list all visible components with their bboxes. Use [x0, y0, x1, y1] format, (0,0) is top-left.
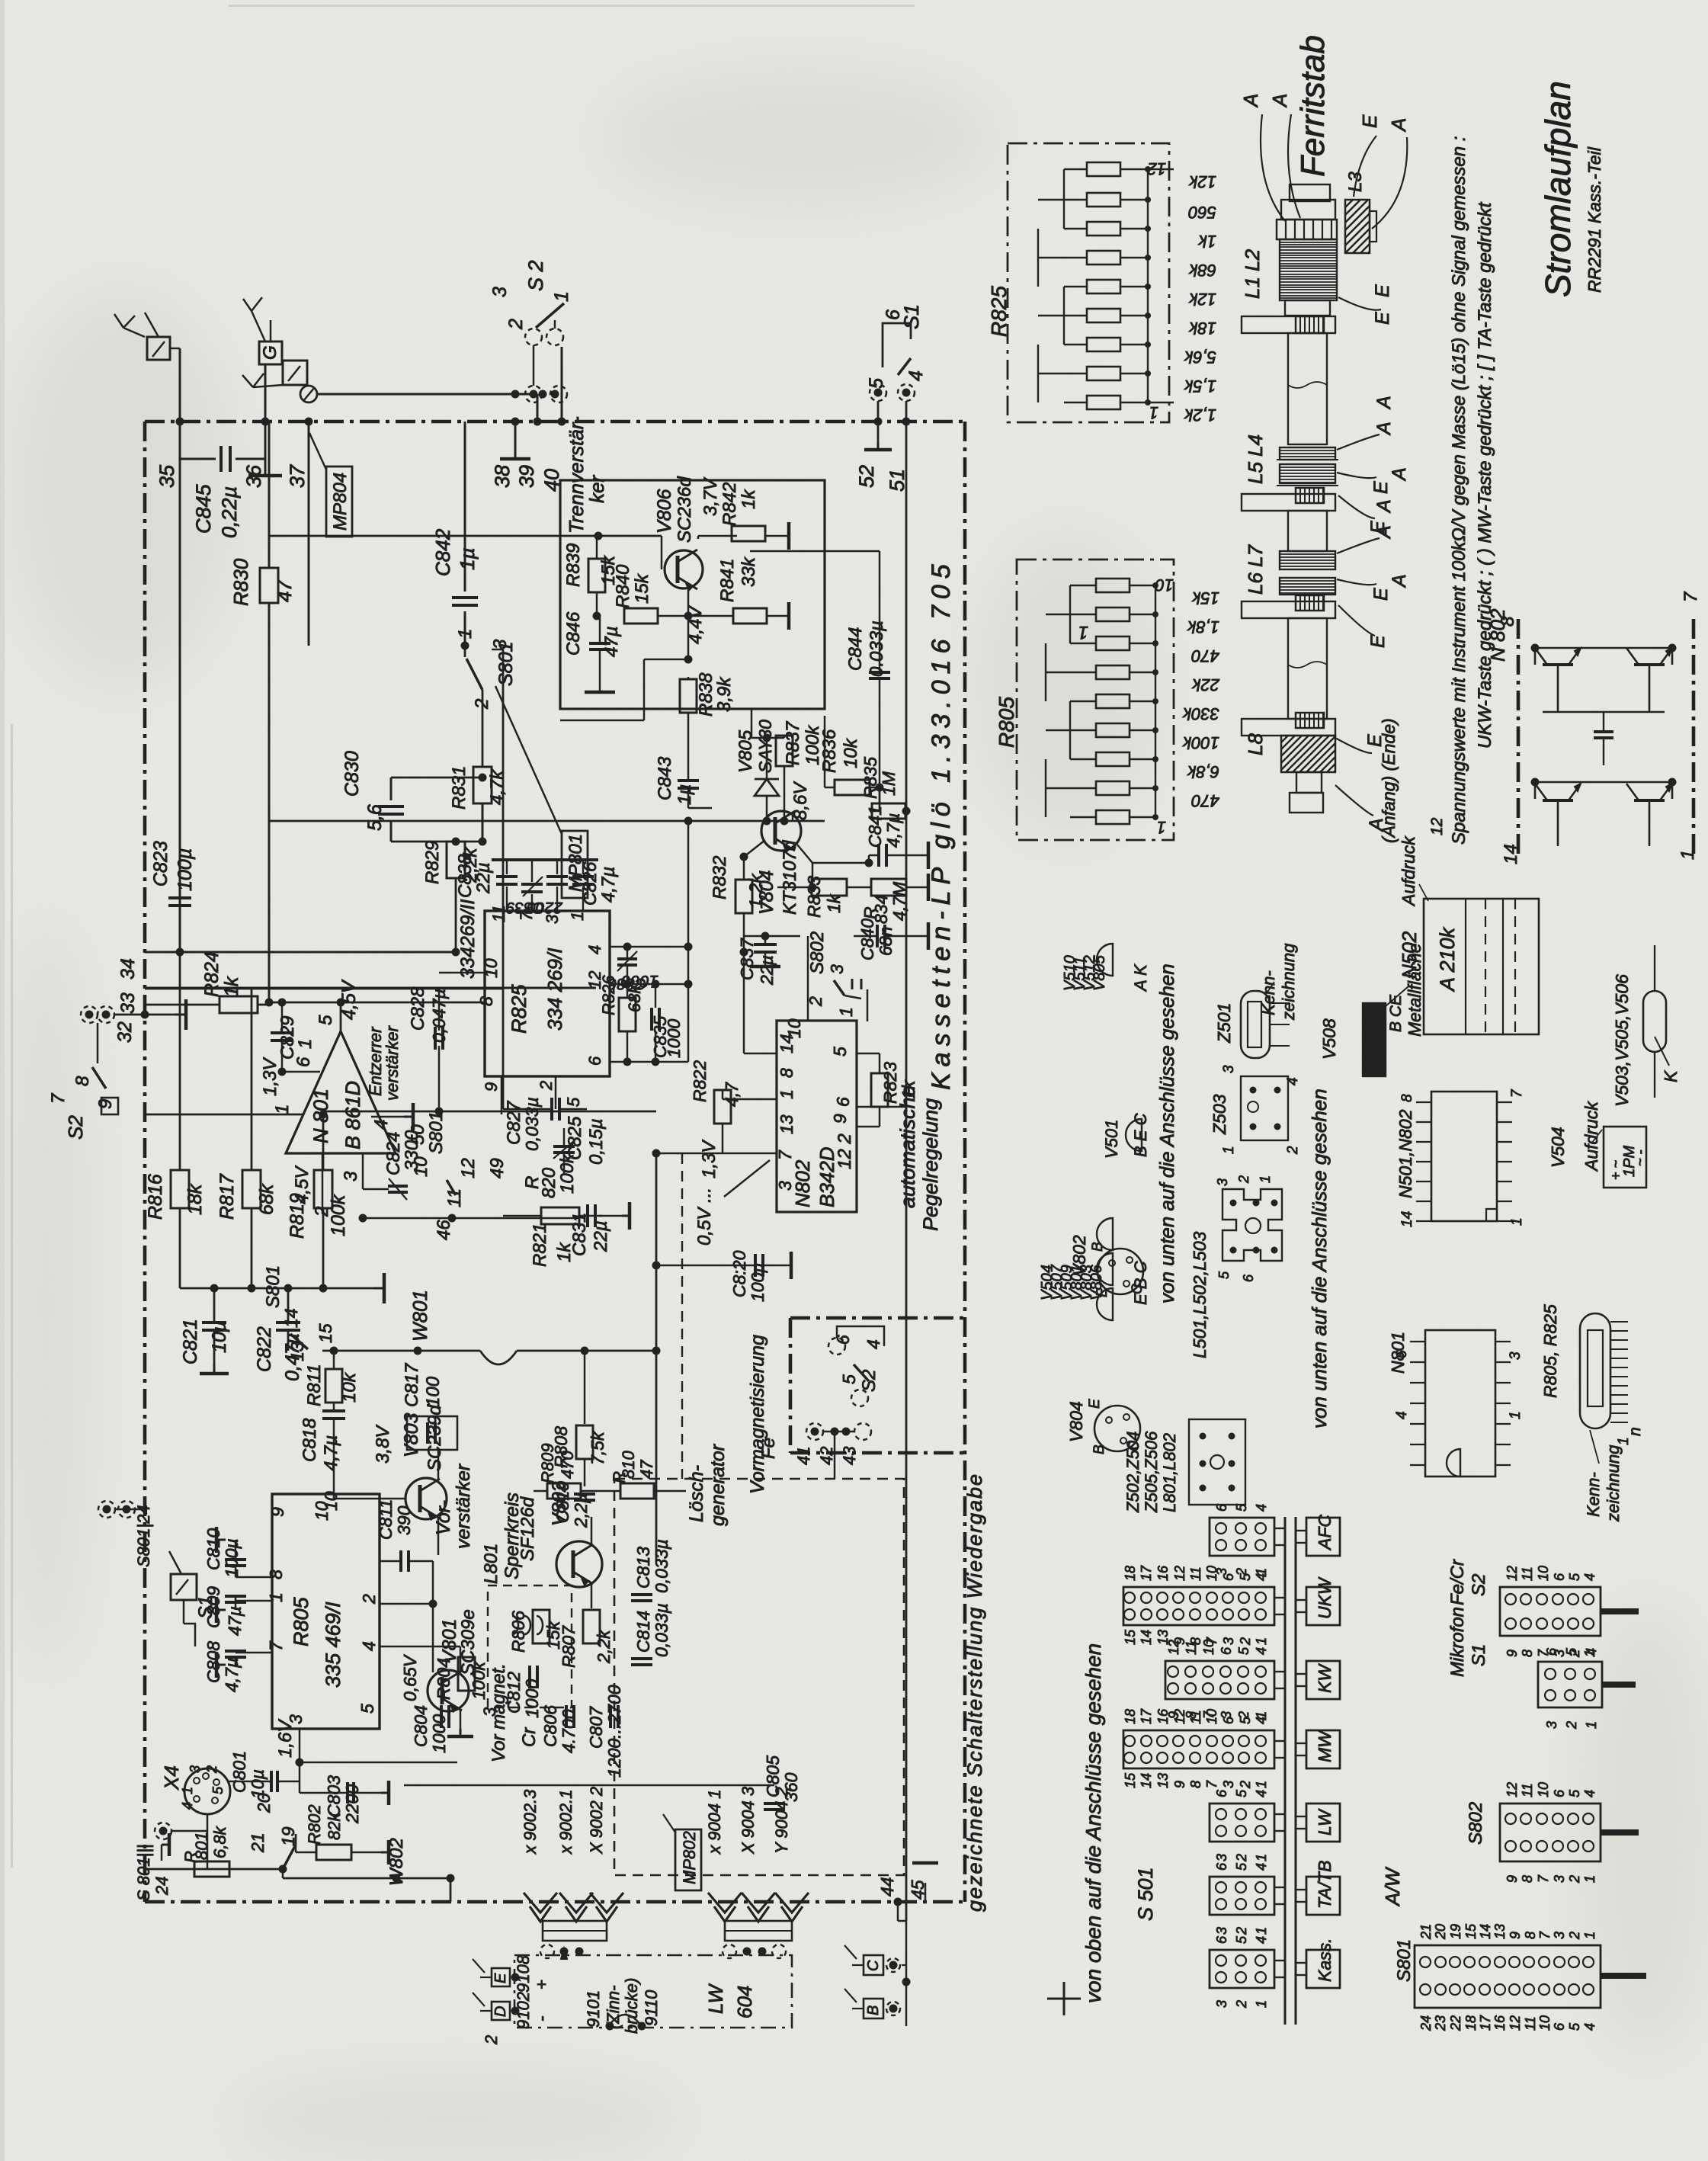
- svg-text:0,033µ: 0,033µ: [522, 1097, 542, 1151]
- svg-text:6: 6: [1219, 1646, 1234, 1655]
- network R805 resistors: [1096, 579, 1130, 592]
- capacitor C829: [271, 1031, 293, 1034]
- resistor R804: [458, 1657, 475, 1691]
- svg-text:3: 3: [187, 1765, 203, 1773]
- svg-text:21: 21: [248, 1832, 268, 1853]
- svg-text:5,6k: 5,6k: [1184, 348, 1216, 367]
- coil L3 hatched: [1345, 200, 1370, 253]
- svg-text:334269/II: 334269/II: [457, 899, 479, 979]
- svg-text:6: 6: [1214, 1503, 1229, 1512]
- svg-text:41: 41: [794, 1447, 813, 1465]
- svg-text:38: 38: [491, 465, 514, 488]
- resistor R839: [588, 559, 605, 592]
- svg-text:R838: R838: [696, 672, 716, 717]
- svg-text:3: 3: [1221, 1637, 1236, 1645]
- svg-text:810: 810: [619, 1451, 638, 1479]
- package DIP N501: [1431, 1092, 1497, 1221]
- svg-text:C817: C817: [402, 1362, 422, 1407]
- capacitor C835: [650, 1008, 653, 1031]
- MP801 callout: [562, 831, 588, 898]
- IC R825 334269/II box: [485, 911, 610, 1076]
- wire R824 left: [145, 1004, 220, 1006]
- svg-text:n: n: [1626, 1427, 1644, 1436]
- svg-text:2: 2: [1238, 1781, 1253, 1789]
- svg-text:6,8k: 6,8k: [210, 1826, 229, 1858]
- svg-text:S802: S802: [1466, 1802, 1486, 1845]
- wire v805 top: [751, 737, 784, 739]
- svg-text:5,6: 5,6: [364, 804, 386, 831]
- svg-text:16: 16: [1492, 2015, 1508, 2031]
- svg-text:12: 12: [1505, 1566, 1520, 1581]
- svg-text:V503,V505,V506: V503,V505,V506: [1612, 974, 1632, 1107]
- capacitor C840: [876, 925, 879, 947]
- svg-text:3,9k: 3,9k: [714, 676, 735, 712]
- svg-text:5: 5: [1567, 1789, 1582, 1797]
- svg-text:4: 4: [1582, 1573, 1597, 1581]
- svg-text:5: 5: [1234, 1935, 1249, 1944]
- svg-text:2: 2: [1234, 2000, 1249, 2009]
- svg-text:12: 12: [1505, 1782, 1520, 1797]
- svg-text:3: 3: [827, 964, 847, 974]
- svg-text:3: 3: [1221, 1781, 1236, 1788]
- svg-text:L1 L2: L1 L2: [1241, 248, 1264, 299]
- svg-text:MP802: MP802: [680, 1831, 699, 1884]
- svg-text:0,5V ...: 0,5V ...: [694, 1188, 715, 1246]
- tape head right: [725, 1921, 792, 1941]
- resistor R807: [583, 1610, 600, 1643]
- capacitor C841: [877, 844, 880, 867]
- package Z503: [1241, 1076, 1288, 1140]
- svg-text:A: A: [1373, 422, 1395, 436]
- contact dashed 2: [550, 386, 567, 402]
- svg-text:32: 32: [114, 1021, 136, 1043]
- wire C844 branch: [750, 550, 880, 553]
- svg-text:2: 2: [1234, 1927, 1249, 1935]
- svg-text:C811: C811: [376, 1499, 396, 1540]
- svg-text:C825: C825: [565, 1116, 585, 1160]
- svg-text:V805: V805: [1091, 954, 1108, 991]
- svg-text:1000: 1000: [522, 1679, 542, 1718]
- X4 connector: [184, 1768, 230, 1814]
- svg-text:Lösch-: Lösch-: [686, 1465, 707, 1522]
- switch S2 top: [525, 329, 542, 345]
- resistor R835: [872, 803, 905, 819]
- svg-text:11: 11: [1520, 1566, 1535, 1581]
- svg-text:4: 4: [359, 1641, 379, 1651]
- svg-text:Kenn-: Kenn-: [1259, 970, 1278, 1015]
- svg-text:8: 8: [1520, 1650, 1535, 1657]
- svg-text:C808: C808: [203, 1641, 223, 1683]
- svg-text:23: 23: [1433, 2015, 1448, 2031]
- wire rail 33: [145, 987, 596, 989]
- svg-text:5: 5: [1567, 1573, 1582, 1581]
- connector block UKW: [1123, 1587, 1274, 1625]
- svg-text:C823: C823: [150, 841, 171, 887]
- svg-text:1: 1: [180, 1787, 195, 1794]
- svg-text:Z503: Z503: [1210, 1094, 1229, 1135]
- svg-text:335 469/I: 335 469/I: [322, 1602, 344, 1688]
- svg-text:14: 14: [281, 1308, 301, 1328]
- svg-text:S 2: S 2: [524, 260, 547, 291]
- svg-text:7,5k: 7,5k: [588, 1431, 607, 1465]
- contact dashed 32b: [98, 1006, 114, 1023]
- ribbed collar: [1277, 220, 1337, 239]
- svg-text:10: 10: [1536, 1566, 1551, 1581]
- svg-text:7: 7: [266, 1640, 286, 1651]
- svg-text:8: 8: [476, 996, 496, 1006]
- capacitor C813: [631, 1593, 652, 1596]
- svg-text:12 2: 12 2: [835, 1133, 855, 1169]
- svg-text:13: 13: [777, 1114, 796, 1134]
- svg-text:4: 4: [864, 1339, 883, 1349]
- svg-text:C845: C845: [192, 483, 215, 534]
- wire N802 pins left: [744, 1053, 777, 1055]
- capacitor C823: [168, 896, 191, 899]
- svg-text:9110: 9110: [642, 1989, 661, 2026]
- transistor V802: [556, 1541, 602, 1587]
- svg-text:L501,L502,L503: L501,L502,L503: [1190, 1232, 1210, 1358]
- svg-text:12: 12: [1428, 817, 1446, 835]
- svg-text:3: 3: [1214, 1854, 1229, 1861]
- svg-text:TA/TB: TA/TB: [1315, 1861, 1335, 1909]
- svg-text:14: 14: [1399, 1211, 1415, 1227]
- svg-text:R829: R829: [422, 841, 443, 884]
- leader E top: [1354, 136, 1376, 197]
- svg-text:1000: 1000: [664, 1019, 684, 1058]
- svg-text:2,2k: 2,2k: [594, 1629, 614, 1664]
- svg-text:10: 10: [1536, 1782, 1551, 1797]
- wire v804 base: [744, 840, 765, 857]
- svg-text:14: 14: [1139, 1773, 1154, 1788]
- svg-text:1,5k: 1,5k: [1184, 377, 1216, 396]
- switch S2 mid 6-5-4: [828, 1338, 845, 1355]
- svg-text:2: 2: [1567, 1650, 1582, 1658]
- svg-text:S1: S1: [1469, 1644, 1489, 1666]
- svg-text:R806: R806: [508, 1611, 528, 1653]
- svg-text:15: 15: [1463, 1923, 1479, 1939]
- svg-text:6: 6: [1394, 1350, 1410, 1358]
- svg-text:11: 11: [489, 905, 508, 922]
- svg-text:1,2k: 1,2k: [1184, 406, 1216, 425]
- resistor R829: [447, 842, 465, 878]
- svg-text:X 9004 3: X 9004 3: [739, 1786, 758, 1855]
- svg-text:R840: R840: [613, 564, 633, 608]
- connector block KW: [1165, 1661, 1274, 1699]
- svg-text:L801,L802: L801,L802: [1160, 1433, 1179, 1512]
- svg-text:8: 8: [1520, 1875, 1535, 1883]
- svg-text:C840: C840: [857, 919, 877, 960]
- capacitor C814: [631, 1657, 652, 1660]
- node 52: [874, 418, 883, 426]
- package Z502: [1189, 1419, 1245, 1505]
- svg-text:S802: S802: [807, 931, 828, 974]
- svg-text:S801: S801: [426, 1111, 447, 1154]
- svg-text:C813: C813: [633, 1547, 653, 1589]
- svg-text:R808: R808: [551, 1426, 571, 1468]
- svg-text:801: 801: [192, 1832, 211, 1860]
- connector chevrons X9004: [708, 1893, 742, 1913]
- svg-text:14: 14: [1139, 1630, 1154, 1645]
- svg-text:S801: S801: [1394, 1939, 1415, 1982]
- svg-text:R842: R842: [719, 483, 740, 526]
- svg-text:4,7µ: 4,7µ: [883, 813, 903, 848]
- svg-text:5: 5: [1238, 1716, 1253, 1724]
- svg-text:0,15µ: 0,15µ: [586, 1118, 607, 1165]
- antenna Y 2: [243, 299, 252, 311]
- svg-text:R822: R822: [690, 1060, 710, 1102]
- svg-text:43: 43: [840, 1446, 859, 1465]
- svg-text:E: E: [492, 1973, 509, 1983]
- svg-text:von unten auf die Anschlüsse g: von unten auf die Anschlüsse gesehen: [1308, 1089, 1331, 1428]
- variable tap circle: [300, 386, 317, 402]
- svg-text:8: 8: [777, 1068, 796, 1078]
- svg-text:L6 L7: L6 L7: [1244, 543, 1267, 595]
- capacitor C804: [440, 1705, 443, 1728]
- svg-text:1: 1: [1254, 1781, 1269, 1788]
- rod section 3: [1288, 618, 1327, 719]
- svg-text:E: E: [1094, 1287, 1110, 1297]
- svg-text:C841: C841: [865, 806, 885, 848]
- connector label LW: [1306, 1804, 1340, 1842]
- svg-text:4: 4: [1254, 1647, 1269, 1655]
- svg-text:7: 7: [1536, 1874, 1551, 1883]
- capacitor C805: [764, 1802, 785, 1805]
- wire rail top2: [145, 988, 503, 990]
- svg-text:2,2µ: 2,2µ: [571, 1493, 591, 1528]
- svg-text:C806: C806: [540, 1705, 560, 1747]
- svg-text:C819: C819: [553, 1481, 572, 1523]
- svg-text:68k: 68k: [1189, 261, 1216, 280]
- svg-text:9102: 9102: [514, 1992, 533, 2029]
- Trennverstaerker box: [560, 480, 825, 709]
- svg-text:7: 7: [1204, 1780, 1219, 1788]
- svg-text:B E C: B E C: [1131, 1113, 1150, 1157]
- svg-text:100µ: 100µ: [222, 1538, 242, 1578]
- jack B: [864, 1999, 883, 2018]
- svg-text:18: 18: [1123, 1709, 1138, 1724]
- svg-text:1: 1: [272, 1105, 293, 1114]
- svg-text:24: 24: [152, 1877, 171, 1896]
- svg-text:Z501: Z501: [1214, 1003, 1234, 1044]
- svg-text:4,7k: 4,7k: [487, 769, 508, 805]
- wire V806 base: [661, 536, 663, 569]
- svg-text:V802: V802: [1069, 1235, 1089, 1276]
- node 40: [558, 418, 566, 426]
- svg-text:1: 1: [1582, 1650, 1597, 1657]
- svg-text:4: 4: [1254, 1573, 1269, 1581]
- svg-text:5: 5: [1234, 1789, 1249, 1797]
- wire pin6: [610, 1061, 688, 1063]
- connector S2 FelCr: [1500, 1587, 1601, 1636]
- dash-dot small box S2: [790, 1316, 965, 1320]
- wire v804 collector: [792, 814, 794, 821]
- svg-text:8: 8: [72, 1076, 93, 1086]
- network R805 box: [1017, 559, 1174, 840]
- ground node 52: [877, 422, 880, 442]
- svg-text:100k: 100k: [1182, 733, 1219, 752]
- svg-text:C829: C829: [277, 1016, 298, 1060]
- svg-text:L801: L801: [481, 1544, 502, 1584]
- svg-text:334 269/I: 334 269/I: [543, 948, 566, 1031]
- svg-text:46: 46: [434, 1220, 454, 1240]
- svg-text:22µ: 22µ: [757, 955, 777, 986]
- svg-text:100µ: 100µ: [175, 848, 196, 891]
- wire N801 pin4 gnd: [371, 1116, 404, 1118]
- svg-text:12k: 12k: [1189, 172, 1216, 191]
- connector block AFC: [1210, 1518, 1274, 1556]
- svg-text:5: 5: [357, 1704, 377, 1714]
- svg-text:4: 4: [1254, 1936, 1269, 1944]
- svg-text:D: D: [492, 2006, 509, 2017]
- svg-text:R832: R832: [710, 856, 730, 899]
- svg-text:4,7µ: 4,7µ: [321, 1435, 341, 1471]
- svg-text:E: E: [1372, 312, 1393, 325]
- svg-text:V805: V805: [735, 729, 756, 773]
- svg-text:820: 820: [539, 1167, 559, 1198]
- IC R805 335469/I box: [272, 1494, 380, 1729]
- wire 32: [114, 1014, 175, 1016]
- svg-text:RR2291 Kass.-Teil: RR2291 Kass.-Teil: [1585, 146, 1604, 293]
- svg-text:2: 2: [1564, 1721, 1579, 1730]
- svg-text:100µ: 100µ: [748, 1262, 767, 1302]
- svg-text:E: E: [1372, 284, 1393, 297]
- op-amp N801 triangle: [286, 1031, 396, 1153]
- svg-text:G: G: [260, 345, 280, 360]
- leader A top1: [1261, 114, 1285, 221]
- wire N802 pin10 top: [807, 976, 809, 1021]
- antenna Y 3: [242, 375, 253, 387]
- contact dashed pair S801: [98, 1501, 115, 1518]
- svg-text:Spannungswerte mit Instrument: Spannungswerte mit Instrument 100kΩ/V ge…: [1449, 136, 1469, 845]
- svg-text:N 801: N 801: [309, 1089, 332, 1143]
- node 37: [305, 418, 313, 426]
- svg-text:1: 1: [777, 1089, 796, 1099]
- svg-text:E: E: [1367, 635, 1389, 648]
- package V508 flat: [1363, 1003, 1386, 1076]
- svg-text:3: 3: [341, 1171, 361, 1181]
- svg-text:5: 5: [1216, 1271, 1232, 1279]
- transistor V803: [405, 1478, 447, 1519]
- capacitor C807: [609, 1705, 612, 1728]
- resistor R824: [220, 996, 258, 1013]
- svg-text:S2: S2: [64, 1115, 87, 1140]
- svg-text:Fe: Fe: [758, 1438, 779, 1459]
- svg-text:1: 1: [1509, 1217, 1525, 1226]
- connector S1 mikrofon: [1538, 1662, 1602, 1707]
- svg-text:C8:20: C8:20: [729, 1250, 749, 1297]
- svg-text:Z502,Z504: Z502,Z504: [1123, 1432, 1142, 1513]
- svg-text:1,8k: 1,8k: [1187, 617, 1219, 636]
- package Z501: [1241, 991, 1270, 1058]
- resistor R822: [714, 1090, 731, 1124]
- wire n801 region vertical: [503, 1108, 534, 1111]
- svg-text:Z505,Z506: Z505,Z506: [1142, 1431, 1161, 1513]
- svg-text:S2: S2: [1469, 1574, 1489, 1596]
- ground R842: [787, 522, 791, 550]
- svg-text:9: 9: [1172, 1781, 1187, 1788]
- svg-text:UKW-Taste gedrückt ; ( ) MW-Ta: UKW-Taste gedrückt ; ( ) MW-Taste gedrüc…: [1475, 201, 1495, 749]
- switch S801 1-3-2: [461, 642, 469, 650]
- svg-text:6: 6: [1214, 1862, 1229, 1871]
- svg-text:1: 1: [568, 912, 587, 921]
- svg-text:SF126d: SF126d: [518, 1496, 538, 1561]
- svg-text:C821: C821: [180, 1319, 201, 1364]
- svg-text:C846: C846: [563, 611, 584, 656]
- wire n802 7 arrow: [656, 1153, 777, 1155]
- wire w802: [282, 1869, 284, 1878]
- svg-text:C831: C831: [569, 1213, 590, 1256]
- svg-text:SC236d: SC236d: [675, 476, 695, 543]
- resistor R837: [776, 736, 793, 766]
- svg-text:R831: R831: [449, 766, 469, 810]
- wire feedback: [644, 659, 688, 661]
- wire main board outline (dash-dot frame): [145, 420, 965, 424]
- network R825 resistors: [1087, 162, 1120, 176]
- svg-text:1: 1: [1582, 1932, 1597, 1939]
- svg-text:4: 4: [1582, 2023, 1597, 2031]
- svg-text:11: 11: [1520, 1783, 1535, 1797]
- svg-text:13: 13: [1155, 1773, 1171, 1788]
- svg-text:3: 3: [1552, 1932, 1567, 1939]
- capacitor C818: [322, 1409, 345, 1412]
- S501 bus: [1284, 1517, 1287, 2025]
- svg-text:3,8V: 3,8V: [373, 1425, 393, 1464]
- svg-text:1: 1: [1254, 1637, 1269, 1645]
- wire s801 19 up: [295, 1834, 297, 1845]
- svg-text:R837: R837: [783, 720, 803, 765]
- svg-text:9: 9: [268, 1507, 287, 1517]
- wire bus 1077: [269, 820, 825, 822]
- wire V806 collector: [697, 536, 700, 539]
- svg-text:R802: R802: [305, 1804, 324, 1845]
- wire node37 drop: [308, 422, 310, 646]
- resistor R832: [735, 880, 752, 913]
- wire bc: [902, 1964, 906, 1966]
- svg-text:15k: 15k: [1192, 588, 1219, 608]
- svg-text:3: 3: [489, 287, 511, 297]
- wire r808: [584, 1351, 586, 1424]
- svg-text:47: 47: [273, 579, 296, 602]
- svg-text:2: 2: [1567, 1875, 1582, 1884]
- connector block TA/TB: [1210, 1877, 1274, 1915]
- svg-text:10: 10: [1201, 1640, 1216, 1655]
- svg-text:2: 2: [482, 2035, 501, 2045]
- svg-text:LW: LW: [1315, 1808, 1335, 1836]
- ground C831: [622, 1215, 630, 1217]
- resistor R841: [733, 608, 767, 624]
- svg-text:V804: V804: [1066, 1401, 1086, 1442]
- capacitor C842: [464, 422, 466, 592]
- svg-text:2: 2: [505, 319, 527, 330]
- wire pin4: [610, 946, 688, 948]
- capacitor C825: [553, 1145, 575, 1148]
- svg-text:R826: R826: [599, 975, 618, 1015]
- svg-text:A: A: [1389, 574, 1410, 588]
- svg-text:E: E: [1087, 1399, 1103, 1409]
- ground 24 stub: [161, 1845, 163, 1861]
- capacitor C808: [225, 1650, 246, 1653]
- svg-text:1,3V: 1,3V: [260, 1057, 280, 1096]
- svg-text:560: 560: [1188, 203, 1216, 222]
- capacitor C821: [202, 1321, 226, 1324]
- resistor R834: [871, 879, 906, 896]
- svg-text:4: 4: [1254, 1790, 1269, 1797]
- ground C837: [750, 965, 780, 969]
- svg-text:9: 9: [95, 1099, 116, 1109]
- ground C840: [927, 922, 931, 950]
- svg-text:5: 5: [1234, 1503, 1249, 1512]
- svg-text:KW: KW: [1315, 1663, 1335, 1693]
